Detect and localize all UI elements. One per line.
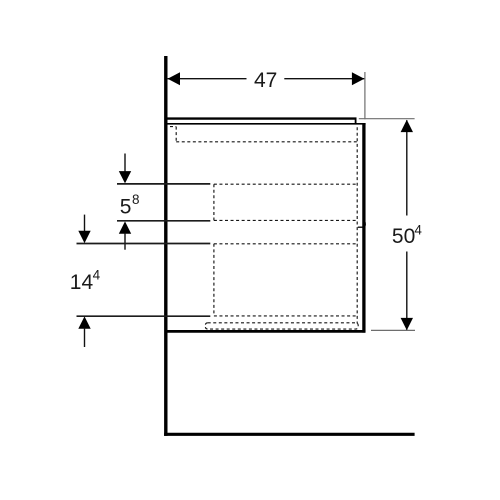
cabinet bottom edge (166, 330, 365, 333)
arrow 58 up stem (124, 233, 126, 250)
arrow 58 down stem (124, 154, 126, 173)
washtop top edge (166, 117, 357, 119)
hidden edge left vertical (175, 127, 177, 142)
upper drawer box bottom (214, 219, 357, 221)
wall line (164, 56, 167, 436)
svg-text:14: 14 (70, 271, 94, 294)
svg-text:4: 4 (414, 222, 422, 237)
svg-text:4: 4 (93, 267, 101, 282)
cabinet front edge (362, 123, 365, 333)
lower drawer box bottom (214, 315, 357, 317)
arrow 58 down (119, 171, 131, 183)
arrow 47 right (352, 72, 364, 85)
svg-text:50: 50 (392, 225, 415, 248)
drawer front joint bulge (364, 221, 367, 228)
dimension line 504 upper segment (406, 120, 408, 215)
hidden edge top-left tick (170, 126, 176, 128)
extension line 504 top (359, 118, 415, 120)
extension line 144 top (77, 243, 211, 245)
upper drawer box left (213, 184, 215, 220)
svg-text:5: 5 (120, 196, 132, 219)
cabinet top edge (167, 123, 366, 125)
drawer front joint tick (358, 226, 364, 228)
svg-text:8: 8 (132, 192, 140, 207)
hidden shelf line (176, 141, 357, 143)
lower drawer box top (214, 243, 357, 245)
washtop right edge (355, 118, 357, 124)
svg-text:47: 47 (254, 69, 277, 92)
floor line (164, 433, 415, 436)
arrow 144 up (78, 316, 90, 328)
arrow 144 down (78, 231, 90, 243)
arrow 144 up stem (84, 328, 86, 347)
dimension line 47 left segment (168, 78, 247, 80)
extension line 504 bottom (371, 329, 415, 331)
extension line 58 top (117, 183, 210, 185)
hidden plinth rail (205, 323, 358, 329)
arrow 504 down (401, 318, 413, 330)
extension line 58 bottom (117, 220, 210, 222)
dimension line 504 lower segment (406, 252, 408, 330)
upper drawer box top (214, 183, 357, 185)
arrow 144 down stem (84, 215, 86, 232)
arrow 58 up (119, 221, 131, 233)
extension line 144 bottom (77, 315, 211, 317)
hidden inner front vertical (356, 127, 358, 323)
dimension line 47 right segment (284, 78, 364, 80)
arrow 47 left (168, 72, 180, 85)
lower drawer box left (213, 244, 215, 316)
extension line 47 right (364, 72, 366, 119)
arrow 504 up (401, 120, 413, 132)
